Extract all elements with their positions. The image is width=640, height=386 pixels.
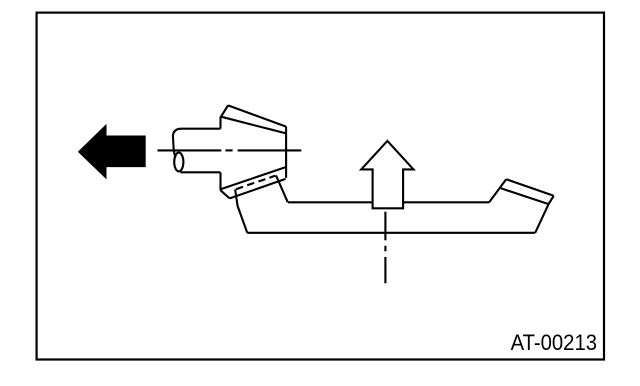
lever (selector plate) — [235, 175, 554, 232]
left arm left line — [235, 189, 247, 232]
cone left edge (below tube) — [219, 172, 221, 190]
tube end ellipse — [174, 153, 183, 172]
up arrow (outline, pointing up) — [361, 141, 413, 208]
cone top bevel — [221, 105, 228, 116]
cone (tapered fitting) — [221, 105, 287, 198]
lever top edge, right of arrow — [403, 201, 489, 203]
tube (cylindrical shaft) — [173, 129, 221, 173]
right arm top slant — [489, 179, 506, 202]
cone top outer slant — [228, 105, 286, 126]
hidden edge (dashed) in band — [236, 187, 243, 189]
right tab upper line — [506, 179, 554, 196]
lever top edge, left of arrow — [288, 201, 373, 203]
left arm right line — [276, 175, 288, 202]
vertical centerline (dash-dot) — [384, 212, 386, 284]
tube top edge with rounded left corner — [173, 129, 221, 158]
horizontal centerline (dash-dot) — [158, 149, 302, 151]
cone right edge — [285, 127, 287, 178]
cone top inner slant — [222, 117, 287, 134]
svg-text:AT-00213: AT-00213 — [511, 330, 597, 355]
tube bottom edge — [180, 171, 220, 173]
right tab lower line — [501, 188, 549, 204]
cone bottom band upper line — [221, 167, 286, 189]
arrow (solid black, pointing left) — [78, 124, 146, 179]
cone bottom bevel — [221, 190, 230, 198]
cone bottom band lower line — [230, 179, 286, 199]
lever bottom edge — [247, 232, 535, 234]
right tab end cap — [549, 196, 554, 204]
right arm bottom slant — [535, 204, 548, 233]
cone left edge (above tube) — [219, 117, 221, 129]
